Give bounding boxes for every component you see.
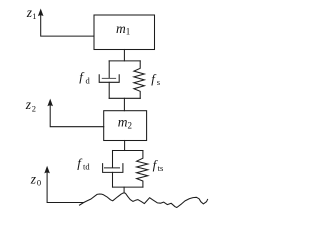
damper ftd lower rod: [112, 172, 114, 187]
svg-text:s: s: [157, 77, 160, 87]
wire upper top bar: [109, 60, 140, 62]
label fd: [79, 69, 90, 86]
label fts: [153, 157, 164, 173]
svg-text:z: z: [25, 97, 32, 112]
svg-text:m: m: [116, 21, 126, 36]
svg-text:1: 1: [126, 26, 131, 36]
label m2: [118, 114, 132, 130]
mass m1 box: [94, 15, 155, 50]
wire m2 to lower bar: [124, 141, 126, 151]
label ftd: [77, 155, 90, 171]
wire lower bottom bar: [113, 186, 143, 188]
damper ftd rod: [112, 151, 114, 168]
svg-text:2: 2: [32, 103, 36, 113]
node z2 axis arrow: [47, 99, 103, 127]
label z0: [30, 171, 41, 187]
svg-text:1: 1: [32, 11, 36, 21]
label m1: [116, 21, 130, 37]
svg-text:ts: ts: [158, 163, 164, 173]
damper ftd cup: [103, 164, 123, 173]
mass m2 box: [104, 111, 147, 141]
label z2: [25, 97, 36, 113]
damper ftd piston plate: [105, 167, 120, 169]
wire upper bar to m2: [123, 98, 125, 110]
node z0 axis arrow: [44, 166, 83, 203]
wire m1 to upper bar: [123, 50, 125, 61]
damper fd cup: [99, 75, 119, 83]
svg-text:z: z: [30, 171, 37, 186]
wire upper bottom bar: [109, 97, 140, 99]
svg-text:0: 0: [37, 178, 41, 188]
label fs: [151, 71, 160, 87]
svg-text:2: 2: [128, 120, 133, 130]
damper fd piston plate: [102, 77, 115, 79]
svg-text:td: td: [83, 162, 90, 172]
damper fd lower rod: [108, 82, 110, 98]
road profile wavy line: [80, 193, 208, 208]
node z1 axis arrow: [38, 9, 94, 37]
wire lower bar to road: [123, 187, 125, 193]
wire lower top bar: [113, 150, 143, 152]
damper fd rod: [108, 61, 110, 78]
spring fs: [134, 61, 144, 98]
spring fts: [137, 151, 148, 188]
svg-text:m: m: [118, 114, 128, 129]
label z1: [26, 5, 37, 21]
